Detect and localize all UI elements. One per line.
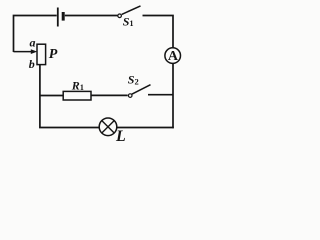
battery cell long plate <box>57 8 59 27</box>
wire top-left + left vertical <box>14 16 57 53</box>
ammeter A1 circle <box>165 48 181 64</box>
rheostat P box <box>37 44 46 64</box>
wire right vertical below ammeter <box>172 63 174 128</box>
wiper arrowhead <box>31 49 37 54</box>
switch S1 blade <box>122 6 141 15</box>
wire bottom right segment <box>117 127 174 129</box>
wire bottom left segment + left bottom vertical up to P <box>40 65 99 128</box>
svg-text:b: b <box>29 57 35 71</box>
resistor R1 box <box>63 91 91 100</box>
lamp L circle <box>99 118 117 136</box>
switch S2 pivot circle <box>128 94 132 98</box>
svg-text:A: A <box>168 49 179 64</box>
wire S1 to top-right corner <box>143 16 174 49</box>
wire R1 to S2 <box>91 94 128 96</box>
switch S2 blade <box>132 85 151 95</box>
svg-text:L: L <box>115 128 126 145</box>
wire battery to switch S1 <box>65 15 118 17</box>
wire S2 to right vertical <box>148 94 173 96</box>
svg-text:a: a <box>30 36 36 50</box>
wiper wire with arrow <box>14 51 32 53</box>
battery cell short plate <box>62 12 65 21</box>
lamp X cross <box>102 121 114 133</box>
switch S1 pivot circle <box>118 14 122 18</box>
svg-text:P: P <box>49 47 58 62</box>
wire junction to R1 <box>40 95 63 97</box>
